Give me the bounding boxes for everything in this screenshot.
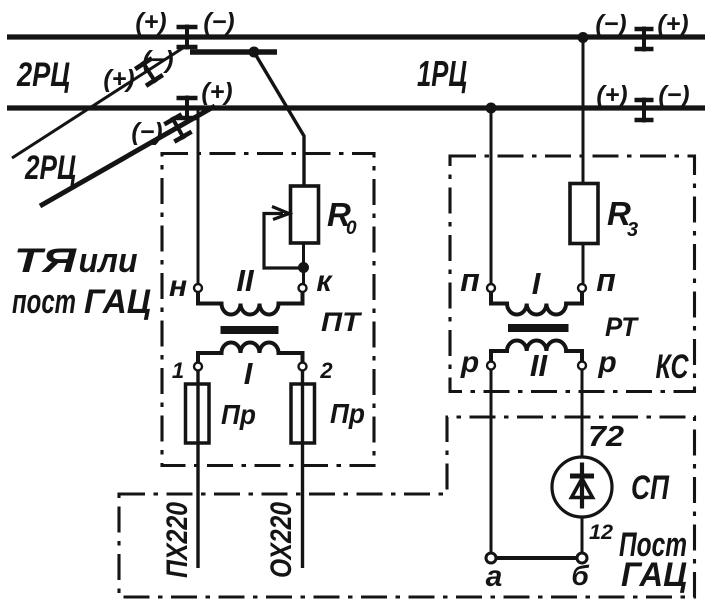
svg-text:н: н — [169, 270, 187, 303]
terminal р right circle — [578, 362, 586, 370]
terminal р left circle — [487, 362, 495, 370]
svg-text:(+): (+) — [596, 81, 627, 109]
svg-text:(−): (−) — [658, 81, 689, 109]
resistor R0 — [291, 186, 319, 243]
insulated joint J6 on thick diagonal — [163, 112, 193, 144]
fuse Пр right — [291, 384, 315, 443]
rail 2 (bottom rail of 1РЦ) — [7, 105, 705, 110]
svg-text:I: I — [244, 356, 254, 391]
winding II of РТ — [491, 341, 582, 362]
svg-text:б: б — [571, 560, 589, 591]
svg-text:II: II — [530, 348, 549, 383]
svg-text:2РЦ: 2РЦ — [16, 56, 70, 94]
svg-text:п: п — [596, 262, 616, 298]
wire р right to relay СП — [581, 369, 584, 457]
rheostat arrow head — [272, 207, 289, 220]
svg-text:(+): (+) — [103, 65, 134, 93]
rail 1 (top rail of 1РЦ) — [7, 34, 705, 39]
wire rail1 to R3 — [582, 37, 585, 184]
svg-text:ПТ: ПТ — [321, 307, 363, 337]
node: junction dot on feed bar — [249, 47, 260, 58]
core of ПТ — [221, 326, 279, 334]
svg-text:0: 0 — [346, 218, 357, 239]
svg-text:ТЯ: ТЯ — [14, 242, 78, 280]
svg-text:СП: СП — [631, 469, 670, 507]
svg-text:ПХ220: ПХ220 — [161, 502, 194, 578]
insulated joint J3 on rail 1 right — [635, 27, 654, 52]
svg-text:2РЦ: 2РЦ — [24, 149, 76, 187]
svg-text:(−): (−) — [203, 8, 234, 36]
relay СП inner symbol: vertical line — [580, 463, 584, 509]
svg-text:2: 2 — [319, 358, 333, 383]
svg-text:ГАЦ: ГАЦ — [621, 556, 687, 594]
box Пост ГАЦ (dash-dot) — [119, 417, 695, 597]
box КС (dash-dot) — [450, 156, 695, 392]
terminal п left circle — [487, 284, 495, 292]
node dot on rail 1 right — [578, 32, 589, 43]
svg-text:1РЦ: 1РЦ — [417, 53, 467, 94]
winding I of ПТ — [198, 343, 303, 363]
svg-text:р: р — [597, 346, 616, 379]
relay СП inner symbol: bar — [570, 474, 594, 479]
rheostat slider arm — [264, 214, 304, 269]
svg-text:(−): (−) — [131, 118, 162, 146]
svg-text:1: 1 — [172, 358, 184, 383]
terminal п right circle — [578, 284, 586, 292]
svg-text:пост: пост — [12, 283, 76, 321]
svg-text:Пр: Пр — [330, 398, 365, 429]
svg-text:РТ: РТ — [605, 312, 639, 342]
box ПТ (dash-dot) — [162, 154, 374, 466]
insulated joint J4 on rail 2 right — [635, 98, 654, 123]
rail diagonal thin (2РЦ upper branch rail) — [12, 46, 186, 158]
wire: feed from bar to R0 — [254, 52, 304, 186]
terminal б circle — [577, 553, 587, 563]
insulated joint J2 on rail 2 left — [177, 96, 198, 121]
svg-text:р: р — [460, 346, 479, 379]
svg-text:к: к — [316, 265, 333, 298]
svg-text:(+): (+) — [201, 78, 232, 106]
svg-text:II: II — [236, 263, 255, 298]
svg-text:3: 3 — [627, 219, 638, 241]
insulated joint J5 on thin diagonal — [134, 56, 164, 88]
wire R0 bottom to node K — [302, 243, 305, 284]
relay СП inner symbol: triangle — [572, 479, 593, 498]
terminal н circle — [194, 284, 202, 292]
relay СП circle — [552, 457, 612, 517]
svg-text:12: 12 — [589, 521, 613, 544]
svg-text:72: 72 — [588, 421, 624, 453]
svg-text:или: или — [79, 242, 138, 280]
svg-text:(+): (+) — [657, 10, 688, 38]
svg-text:ГАЦ: ГАЦ — [84, 283, 151, 321]
terminal к circle — [299, 284, 307, 292]
wire terminal1 down through fuse to ПХ220 — [196, 370, 199, 568]
winding II of ПТ — [198, 292, 303, 315]
svg-text:Пр: Пр — [221, 399, 256, 430]
resistor R3 — [570, 184, 598, 244]
svg-text:а: а — [486, 560, 503, 593]
svg-text:(−): (−) — [595, 10, 626, 38]
svg-text:(−): (−) — [142, 46, 173, 74]
wire rail2 to terminal п left — [490, 108, 493, 284]
node dot K junction — [298, 262, 309, 273]
terminal 1 circle — [194, 363, 202, 371]
insulated joint J1 on rail 1 left — [177, 25, 198, 50]
svg-text:ОХ220: ОХ220 — [265, 502, 298, 578]
track feed bar on rail 1 — [190, 49, 277, 55]
node dot on rail 2 right — [486, 103, 497, 114]
core of РТ — [508, 324, 569, 332]
svg-text:I: I — [532, 266, 542, 301]
svg-text:п: п — [460, 262, 480, 298]
rail diagonal thick (2РЦ lower branch rail) — [40, 106, 215, 206]
svg-text:КС: КС — [656, 348, 689, 386]
svg-text:(+): (+) — [135, 8, 166, 36]
terminal а circle — [486, 553, 496, 563]
fuse Пр left — [186, 384, 210, 443]
wire terminal2 down through fuse to ОХ220 — [301, 370, 304, 568]
wire СП to terminal б — [581, 517, 584, 553]
wire R3 to terminal п right — [582, 242, 585, 284]
wire rail2 to terminal н — [197, 110, 200, 284]
winding I of РТ — [491, 292, 582, 315]
wire р left to terminal а — [490, 369, 493, 552]
wire terminal а to б — [496, 556, 577, 560]
terminal 2 circle — [299, 363, 307, 371]
